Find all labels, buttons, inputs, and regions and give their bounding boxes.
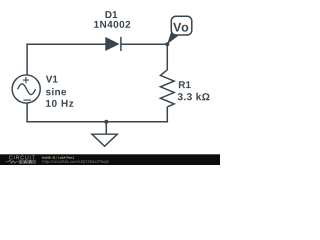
- ground junction dot: [104, 120, 108, 124]
- voltage source V1 (sine source circle): [12, 75, 40, 103]
- wire: resistor R1 bottom down to bottom rail: [166, 107, 168, 123]
- label Vo: [173, 23, 188, 32]
- flag Vo pointer wedge: [167, 31, 179, 44]
- footer logo CIRCUIT: [9, 156, 35, 160]
- diode D1: [105, 37, 121, 51]
- label 10 Hz: [46, 100, 73, 107]
- wire: bottom horizontal rail: [26, 121, 168, 123]
- label sine: [46, 88, 66, 95]
- footer url text: [43, 160, 109, 164]
- ground: [92, 122, 117, 147]
- label V1: [46, 76, 58, 83]
- wire: diode D1 cathode to node Vo: [121, 43, 167, 45]
- footer title text: [42, 156, 74, 159]
- label 1N4002: [94, 21, 130, 28]
- footer logo LAB: [20, 160, 32, 163]
- footer logo wave: [6, 160, 19, 163]
- resistor R1 zigzag: [160, 70, 174, 107]
- node junction dot at Vo node: [165, 42, 169, 46]
- footer bar: [0, 154, 220, 165]
- wire: V1 bottom stub down to bottom rail: [26, 103, 28, 122]
- wire: V1 top stub up to top-left corner: [26, 44, 28, 75]
- flag Vo box: [171, 16, 192, 35]
- label 3.3 kOhm: [178, 93, 210, 101]
- wire: top horizontal from corner to diode D1 anode: [26, 43, 105, 45]
- wire: node Vo down to resistor R1 top: [166, 44, 168, 71]
- label R1: [179, 81, 191, 88]
- footer logo LAB badge: [19, 160, 36, 164]
- label D1: [105, 11, 117, 18]
